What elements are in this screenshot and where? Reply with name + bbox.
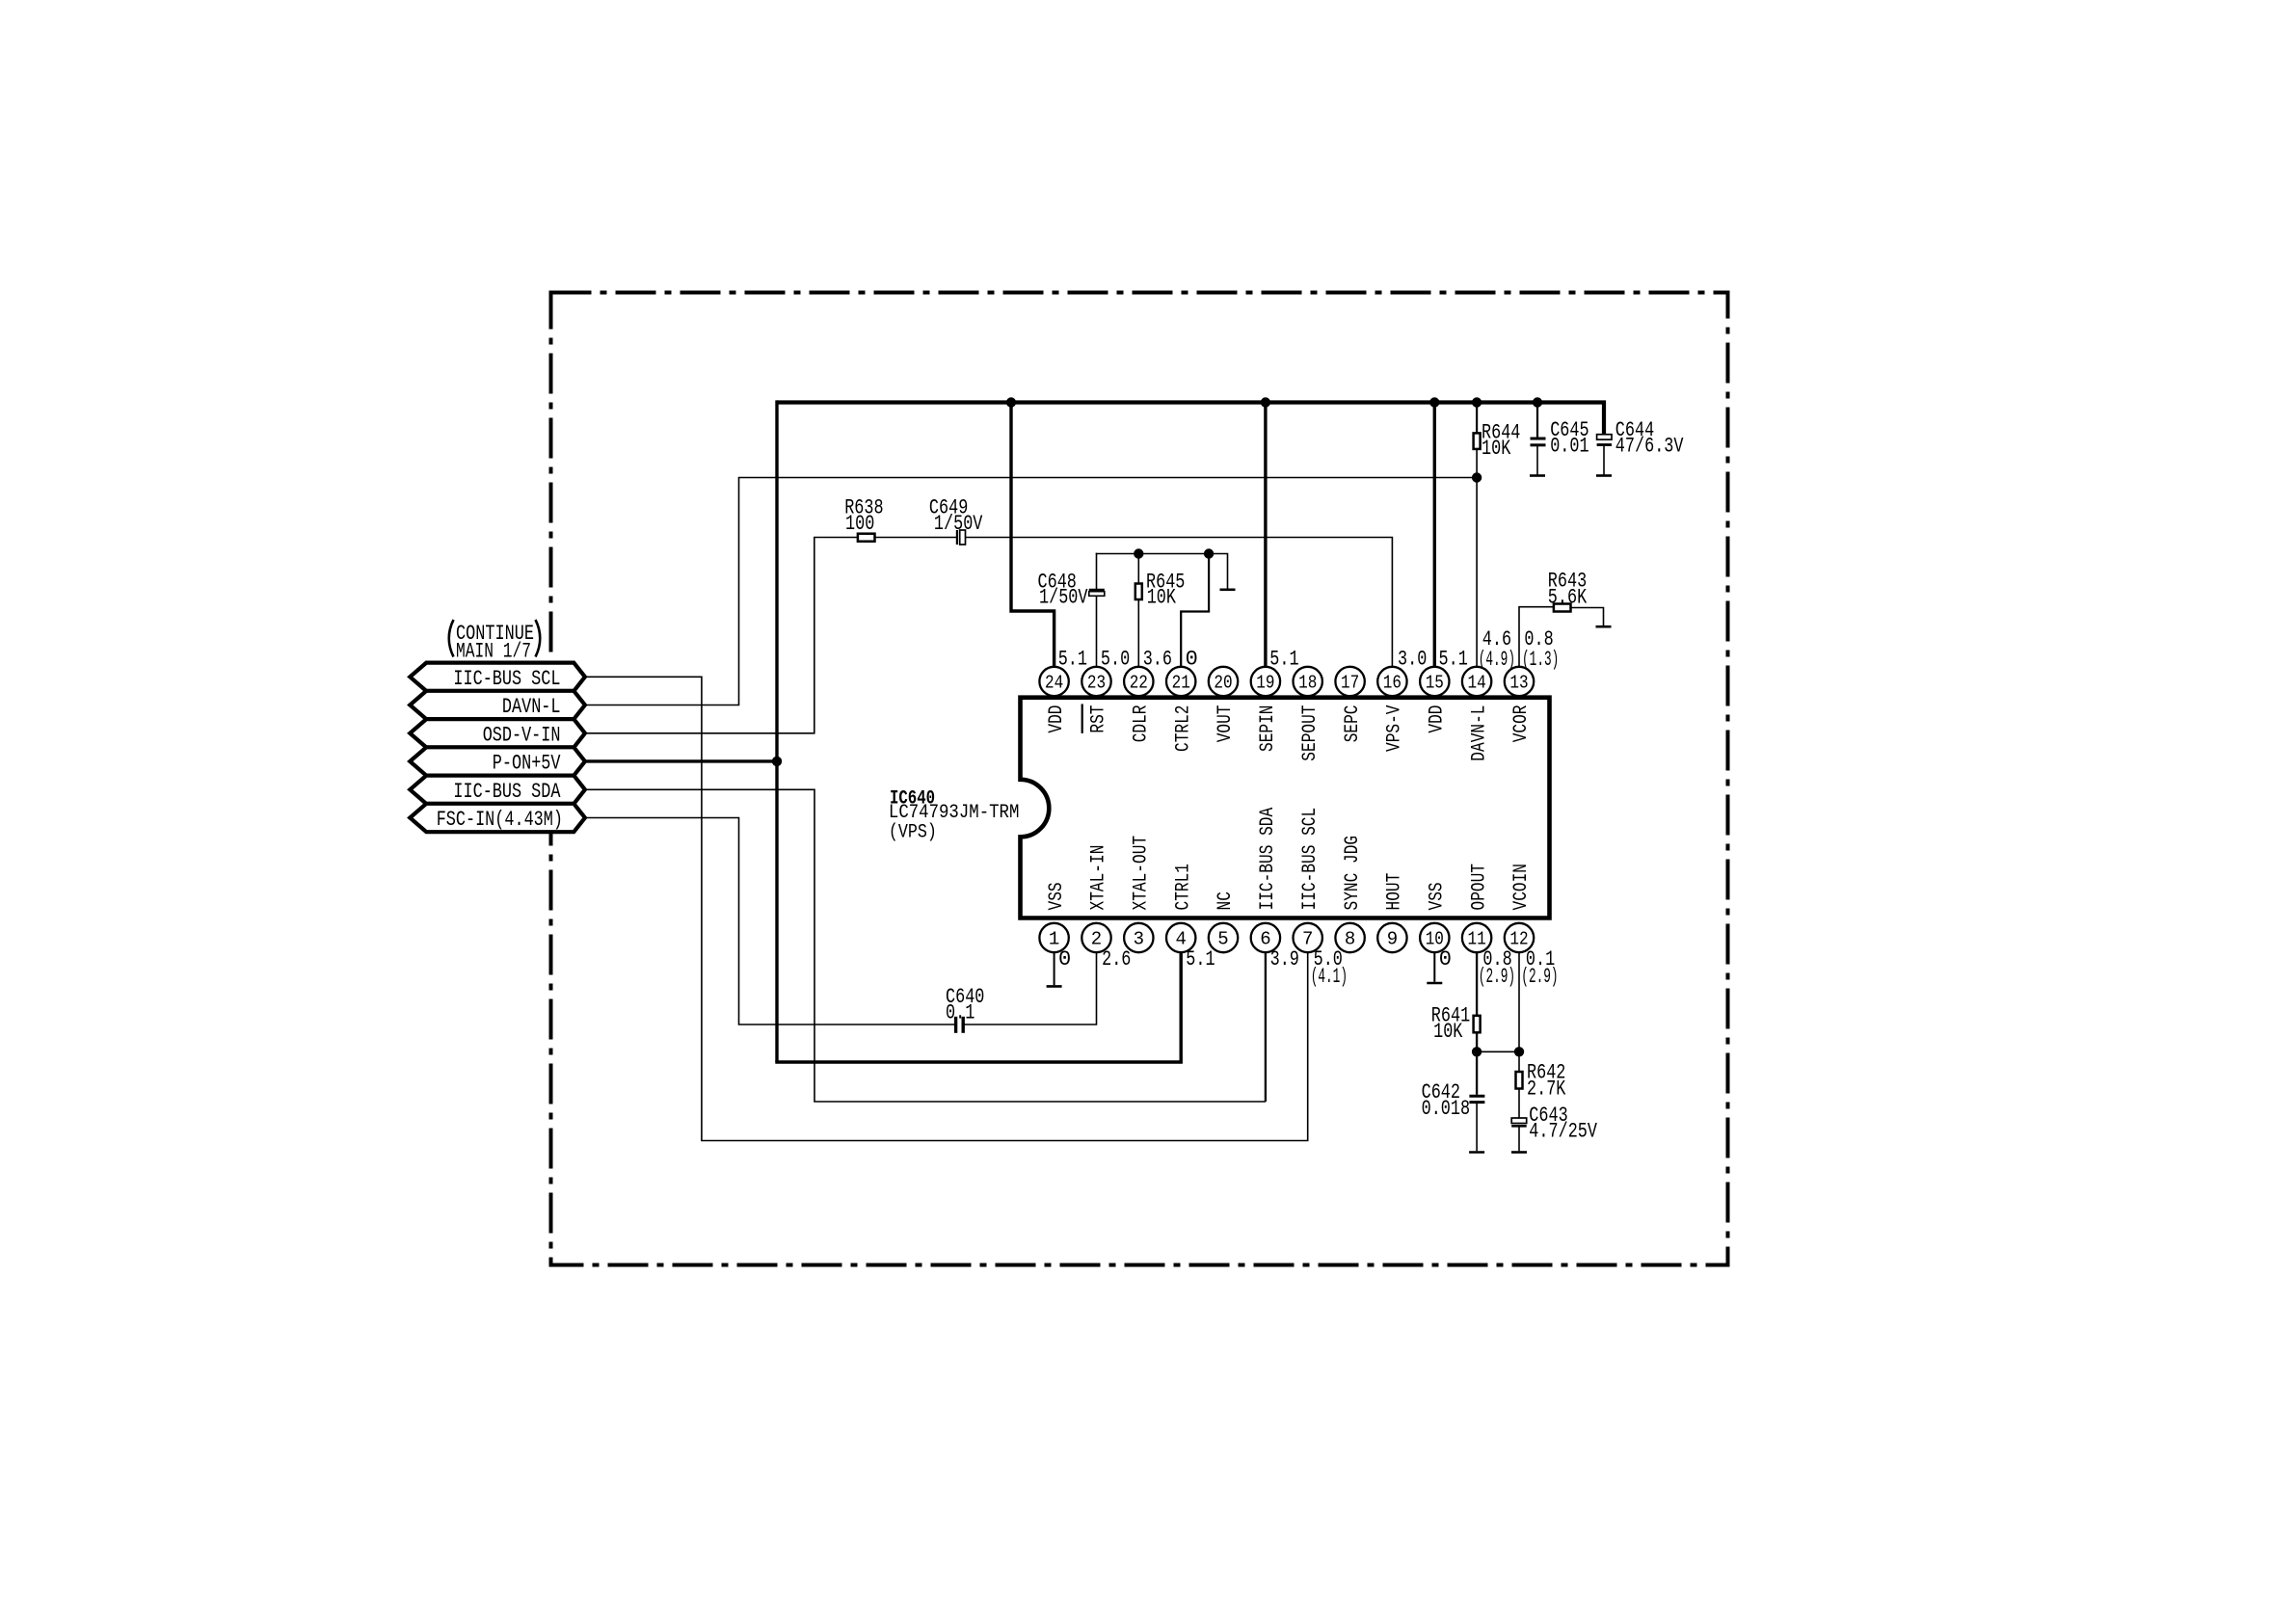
wire pin 15 VDD riser <box>1433 400 1436 667</box>
svg-text:(2.9): (2.9) <box>1521 965 1558 989</box>
svg-text:7: 7 <box>1302 929 1313 950</box>
wire C644 bottom stub <box>1603 446 1605 475</box>
wire junction <box>1533 397 1542 407</box>
svg-text:0.018: 0.018 <box>1422 1097 1471 1121</box>
pin 13 VCOR <box>1505 667 1534 696</box>
wire C640 to pin 2 XTAL-IN <box>964 950 1097 1024</box>
wire P-ON+5V riser <box>775 400 778 1062</box>
svg-text:VOUT: VOUT <box>1215 705 1237 743</box>
svg-text:18: 18 <box>1298 673 1317 694</box>
node CONTINUE MAIN 1/7 note <box>449 620 454 657</box>
svg-text:2.6: 2.6 <box>1102 947 1131 971</box>
wire C645 top stub <box>1536 400 1538 437</box>
resistor R645 10K <box>1135 584 1142 600</box>
capacitor C644 47/6.3V <box>1597 435 1612 439</box>
svg-text:3.0: 3.0 <box>1398 648 1427 672</box>
node IIC-BUS SDA flag <box>410 776 585 804</box>
svg-text:19: 19 <box>1256 673 1274 694</box>
ground <box>1047 985 1062 988</box>
wire R643 right to ground <box>1571 608 1604 626</box>
svg-text:4.7/25V: 4.7/25V <box>1529 1120 1597 1144</box>
pin 18 SEPOUT <box>1294 667 1322 696</box>
wire junction <box>1261 397 1270 407</box>
pin 20 VOUT <box>1209 667 1238 696</box>
svg-text:2: 2 <box>1091 929 1102 950</box>
svg-text:OSD-V-IN: OSD-V-IN <box>483 723 561 747</box>
svg-text:OPOUT: OPOUT <box>1468 864 1490 911</box>
wire R645 bottom to pin 22 CDLR <box>1137 599 1139 668</box>
svg-text:9: 9 <box>1387 929 1398 950</box>
wire C648 to rail <box>1096 553 1098 589</box>
wire VDD top bus <box>777 403 1604 435</box>
svg-text:5.1: 5.1 <box>1269 648 1298 672</box>
svg-text:3: 3 <box>1134 929 1144 950</box>
wire junction <box>1472 472 1482 482</box>
wire P-ON+5V flag stub <box>582 759 779 762</box>
wire junction <box>1204 548 1214 558</box>
wire R644 bottom to DAVN-L node and pin 14 <box>1476 449 1478 668</box>
svg-text:(VPS): (VPS) <box>889 821 937 843</box>
pin 2 XTAL-IN <box>1081 923 1110 952</box>
wire pin 23 RST to C648 <box>1096 592 1098 668</box>
pin 23 RST overline <box>1081 704 1083 733</box>
svg-text:3.9: 3.9 <box>1270 947 1299 971</box>
svg-text:10K: 10K <box>1433 1020 1463 1044</box>
svg-text:NC: NC <box>1215 891 1237 910</box>
svg-text:5.1: 5.1 <box>1058 648 1087 672</box>
wire pin 11 OPOUT to R641 <box>1476 951 1478 1016</box>
svg-text:VCOIN: VCOIN <box>1510 864 1533 911</box>
svg-text:SEPC: SEPC <box>1342 705 1364 743</box>
pin 12 VCOIN <box>1505 923 1534 952</box>
capacitor C643 4.7/25V <box>1511 1118 1527 1124</box>
wire R638 to C649 <box>875 537 957 539</box>
svg-text:20: 20 <box>1214 673 1232 694</box>
svg-text:XTAL-OUT: XTAL-OUT <box>1131 836 1153 911</box>
ground <box>1469 1151 1484 1154</box>
svg-text:2.7K: 2.7K <box>1527 1077 1566 1101</box>
svg-text:23: 23 <box>1087 673 1106 694</box>
wire rail above C648/R645 <box>1096 554 1228 589</box>
svg-text:0: 0 <box>1439 947 1452 971</box>
svg-text:P-ON+5V: P-ON+5V <box>493 752 561 776</box>
svg-text:10K: 10K <box>1147 585 1177 609</box>
ground <box>1596 474 1612 477</box>
resistor R638 100 <box>858 534 875 542</box>
svg-text:CTRL2: CTRL2 <box>1172 705 1194 753</box>
wire R642 to C643 <box>1518 1089 1520 1119</box>
wire junction <box>1514 1047 1524 1056</box>
pin 21 CTRL2 <box>1166 667 1195 696</box>
svg-text:MAIN 1/7: MAIN 1/7 <box>456 640 531 664</box>
wire rail branch to pin 21 CTRL2 <box>1181 553 1209 668</box>
svg-text:SYNC JDG: SYNC JDG <box>1342 836 1364 911</box>
svg-text:5.0: 5.0 <box>1101 648 1130 672</box>
svg-text:22: 22 <box>1130 673 1148 694</box>
svg-text:DAVN-L: DAVN-L <box>1468 705 1490 761</box>
wire junction <box>772 757 782 766</box>
svg-text:RST: RST <box>1088 705 1110 733</box>
svg-text:(4.9): (4.9) <box>1479 648 1515 672</box>
pin 1 VSS <box>1039 923 1068 952</box>
pin 10 VSS <box>1420 923 1449 952</box>
ground <box>1220 588 1236 591</box>
capacitor C645 0.01 <box>1531 438 1546 440</box>
svg-text:0: 0 <box>1186 648 1198 672</box>
svg-text:(2.9): (2.9) <box>1479 965 1515 989</box>
svg-text:SEPOUT: SEPOUT <box>1299 705 1322 761</box>
wire C645 bottom stub <box>1536 446 1538 475</box>
pin 6 IIC-BUS SDA <box>1251 923 1280 952</box>
wire net DAVN-L from flag to pin 14 <box>582 478 1477 705</box>
svg-text:21: 21 <box>1172 673 1190 694</box>
pin 22 CDLR <box>1124 667 1153 696</box>
resistor R644 10K <box>1474 433 1481 449</box>
ground <box>1427 982 1442 985</box>
svg-text:10K: 10K <box>1482 437 1511 461</box>
svg-text:15: 15 <box>1426 673 1444 694</box>
pin 9 HOUT <box>1377 923 1406 952</box>
svg-text:47/6.3V: 47/6.3V <box>1615 435 1684 459</box>
wire R644 top stub <box>1476 400 1478 433</box>
svg-text:5.6K: 5.6K <box>1548 585 1588 609</box>
svg-text:FSC-IN(4.43M): FSC-IN(4.43M) <box>437 808 563 832</box>
wire R641 to C642 <box>1476 1032 1478 1095</box>
pin 24 VDD <box>1039 667 1068 696</box>
svg-text:24: 24 <box>1045 673 1063 694</box>
svg-text:IIC-BUS SCL: IIC-BUS SCL <box>453 667 560 691</box>
wire pin 1 VSS ground stub <box>1054 951 1055 985</box>
wire net IIC-BUS SCL from flag to pin 7 <box>582 677 1308 1140</box>
pin 23 RST <box>1081 667 1110 696</box>
wire C642 to ground <box>1476 1104 1478 1152</box>
wire pin 12 VCOIN to R642 <box>1518 951 1520 1072</box>
wire C643 to ground <box>1518 1127 1520 1152</box>
svg-text:0.01: 0.01 <box>1550 435 1589 459</box>
svg-text:VSS: VSS <box>1046 882 1068 910</box>
resistor R643 5.6K <box>1554 604 1571 612</box>
svg-text:1/50V: 1/50V <box>934 512 983 536</box>
capacitor C642 0.018 <box>1469 1095 1484 1098</box>
wire junction <box>1472 1047 1482 1056</box>
svg-text:CDLR: CDLR <box>1131 705 1153 743</box>
svg-text:8: 8 <box>1345 929 1355 950</box>
svg-text:13: 13 <box>1509 673 1528 694</box>
pin 11 OPOUT <box>1462 923 1491 952</box>
svg-text:IIC-BUS SDA: IIC-BUS SDA <box>453 780 561 804</box>
svg-text:DAVN-L: DAVN-L <box>502 695 561 719</box>
wire junction link pins 11-12 nets <box>1477 1051 1519 1052</box>
capacitor C640 0.1 <box>954 1017 957 1033</box>
wire pin 6 riser <box>1265 950 1267 1102</box>
svg-text:IIC-BUS SCL: IIC-BUS SCL <box>1299 808 1322 911</box>
svg-text:(1.3): (1.3) <box>1522 648 1559 672</box>
wire net IIC-BUS SDA from flag to pin 6 <box>582 789 1266 1102</box>
svg-text:16: 16 <box>1383 673 1402 694</box>
wire net FSC-IN from flag to C640 <box>582 818 954 1025</box>
svg-text:0: 0 <box>1058 947 1071 971</box>
resistor R641 10K <box>1474 1016 1481 1033</box>
wire pin 13 VCOR riser to R643 <box>1519 607 1554 668</box>
pin 7 IIC-BUS SCL <box>1294 923 1322 952</box>
svg-text:VPS-V: VPS-V <box>1384 705 1406 753</box>
node P-ON+5V flag <box>410 747 585 775</box>
pin 17 SEPC <box>1335 667 1364 696</box>
svg-text:5.1: 5.1 <box>1439 648 1468 672</box>
wire R645 top stub <box>1137 554 1139 585</box>
svg-text:VSS: VSS <box>1427 882 1449 910</box>
wire junction <box>1429 397 1439 407</box>
ground <box>1530 474 1545 477</box>
svg-text:0.1: 0.1 <box>946 1001 974 1025</box>
pin 16 VPS-V <box>1377 667 1406 696</box>
svg-text:5.1: 5.1 <box>1186 947 1215 971</box>
wire P-ON+5V bottom run to pin 4 <box>775 950 1181 1062</box>
resistor R642 2.7K <box>1516 1072 1523 1089</box>
svg-text:CTRL1: CTRL1 <box>1172 864 1194 911</box>
svg-text:5: 5 <box>1217 929 1228 950</box>
pin 19 SEPIN <box>1251 667 1280 696</box>
wire pin 19 SEPIN riser <box>1264 400 1267 667</box>
svg-text:1/50V: 1/50V <box>1039 585 1088 609</box>
svg-text:3.6: 3.6 <box>1143 648 1172 672</box>
node OSD-V-IN flag <box>410 719 585 747</box>
svg-text:100: 100 <box>845 512 874 536</box>
wire C649 to pin 16 VPS-V <box>966 538 1393 668</box>
node DAVN-L flag <box>410 691 585 719</box>
capacitor C648 1/50V <box>1089 589 1105 591</box>
svg-text:17: 17 <box>1341 673 1359 694</box>
svg-text:14: 14 <box>1468 673 1486 694</box>
node IIC-BUS SCL flag <box>410 663 585 691</box>
svg-text:HOUT: HOUT <box>1384 873 1406 911</box>
IC IC640 LC74793JM-TRM (VPS) <box>1021 698 1550 918</box>
ground <box>1596 625 1612 628</box>
ground <box>1511 1151 1527 1154</box>
wire junction <box>1134 548 1143 558</box>
svg-text:VDD: VDD <box>1046 705 1068 733</box>
wire junction <box>1472 397 1482 407</box>
svg-text:VDD: VDD <box>1427 705 1449 733</box>
wire net OSD-V-IN from flag to R638 <box>582 538 858 733</box>
pin 3 XTAL-OUT <box>1124 923 1153 952</box>
svg-text:XTAL-IN: XTAL-IN <box>1088 845 1110 911</box>
wire pin 24 VDD riser <box>1011 400 1055 667</box>
pin 5 NC <box>1209 923 1238 952</box>
svg-text:4: 4 <box>1175 929 1186 950</box>
wire junction <box>1006 397 1016 407</box>
pin 8 SYNC JDG <box>1335 923 1364 952</box>
capacitor C649 1/50V <box>956 530 958 545</box>
pin 4 CTRL1 <box>1166 923 1195 952</box>
svg-text:VCOR: VCOR <box>1510 705 1533 743</box>
svg-text:SEPIN: SEPIN <box>1257 705 1279 753</box>
wire pin 10 VSS ground stub <box>1433 951 1435 982</box>
node FSC-IN(4.43M) flag <box>410 804 585 832</box>
pin 15 VDD <box>1420 667 1449 696</box>
pin 14 DAVN-L <box>1462 667 1491 696</box>
svg-text:(4.1): (4.1) <box>1311 965 1348 989</box>
svg-text:IIC-BUS SDA: IIC-BUS SDA <box>1257 808 1279 911</box>
